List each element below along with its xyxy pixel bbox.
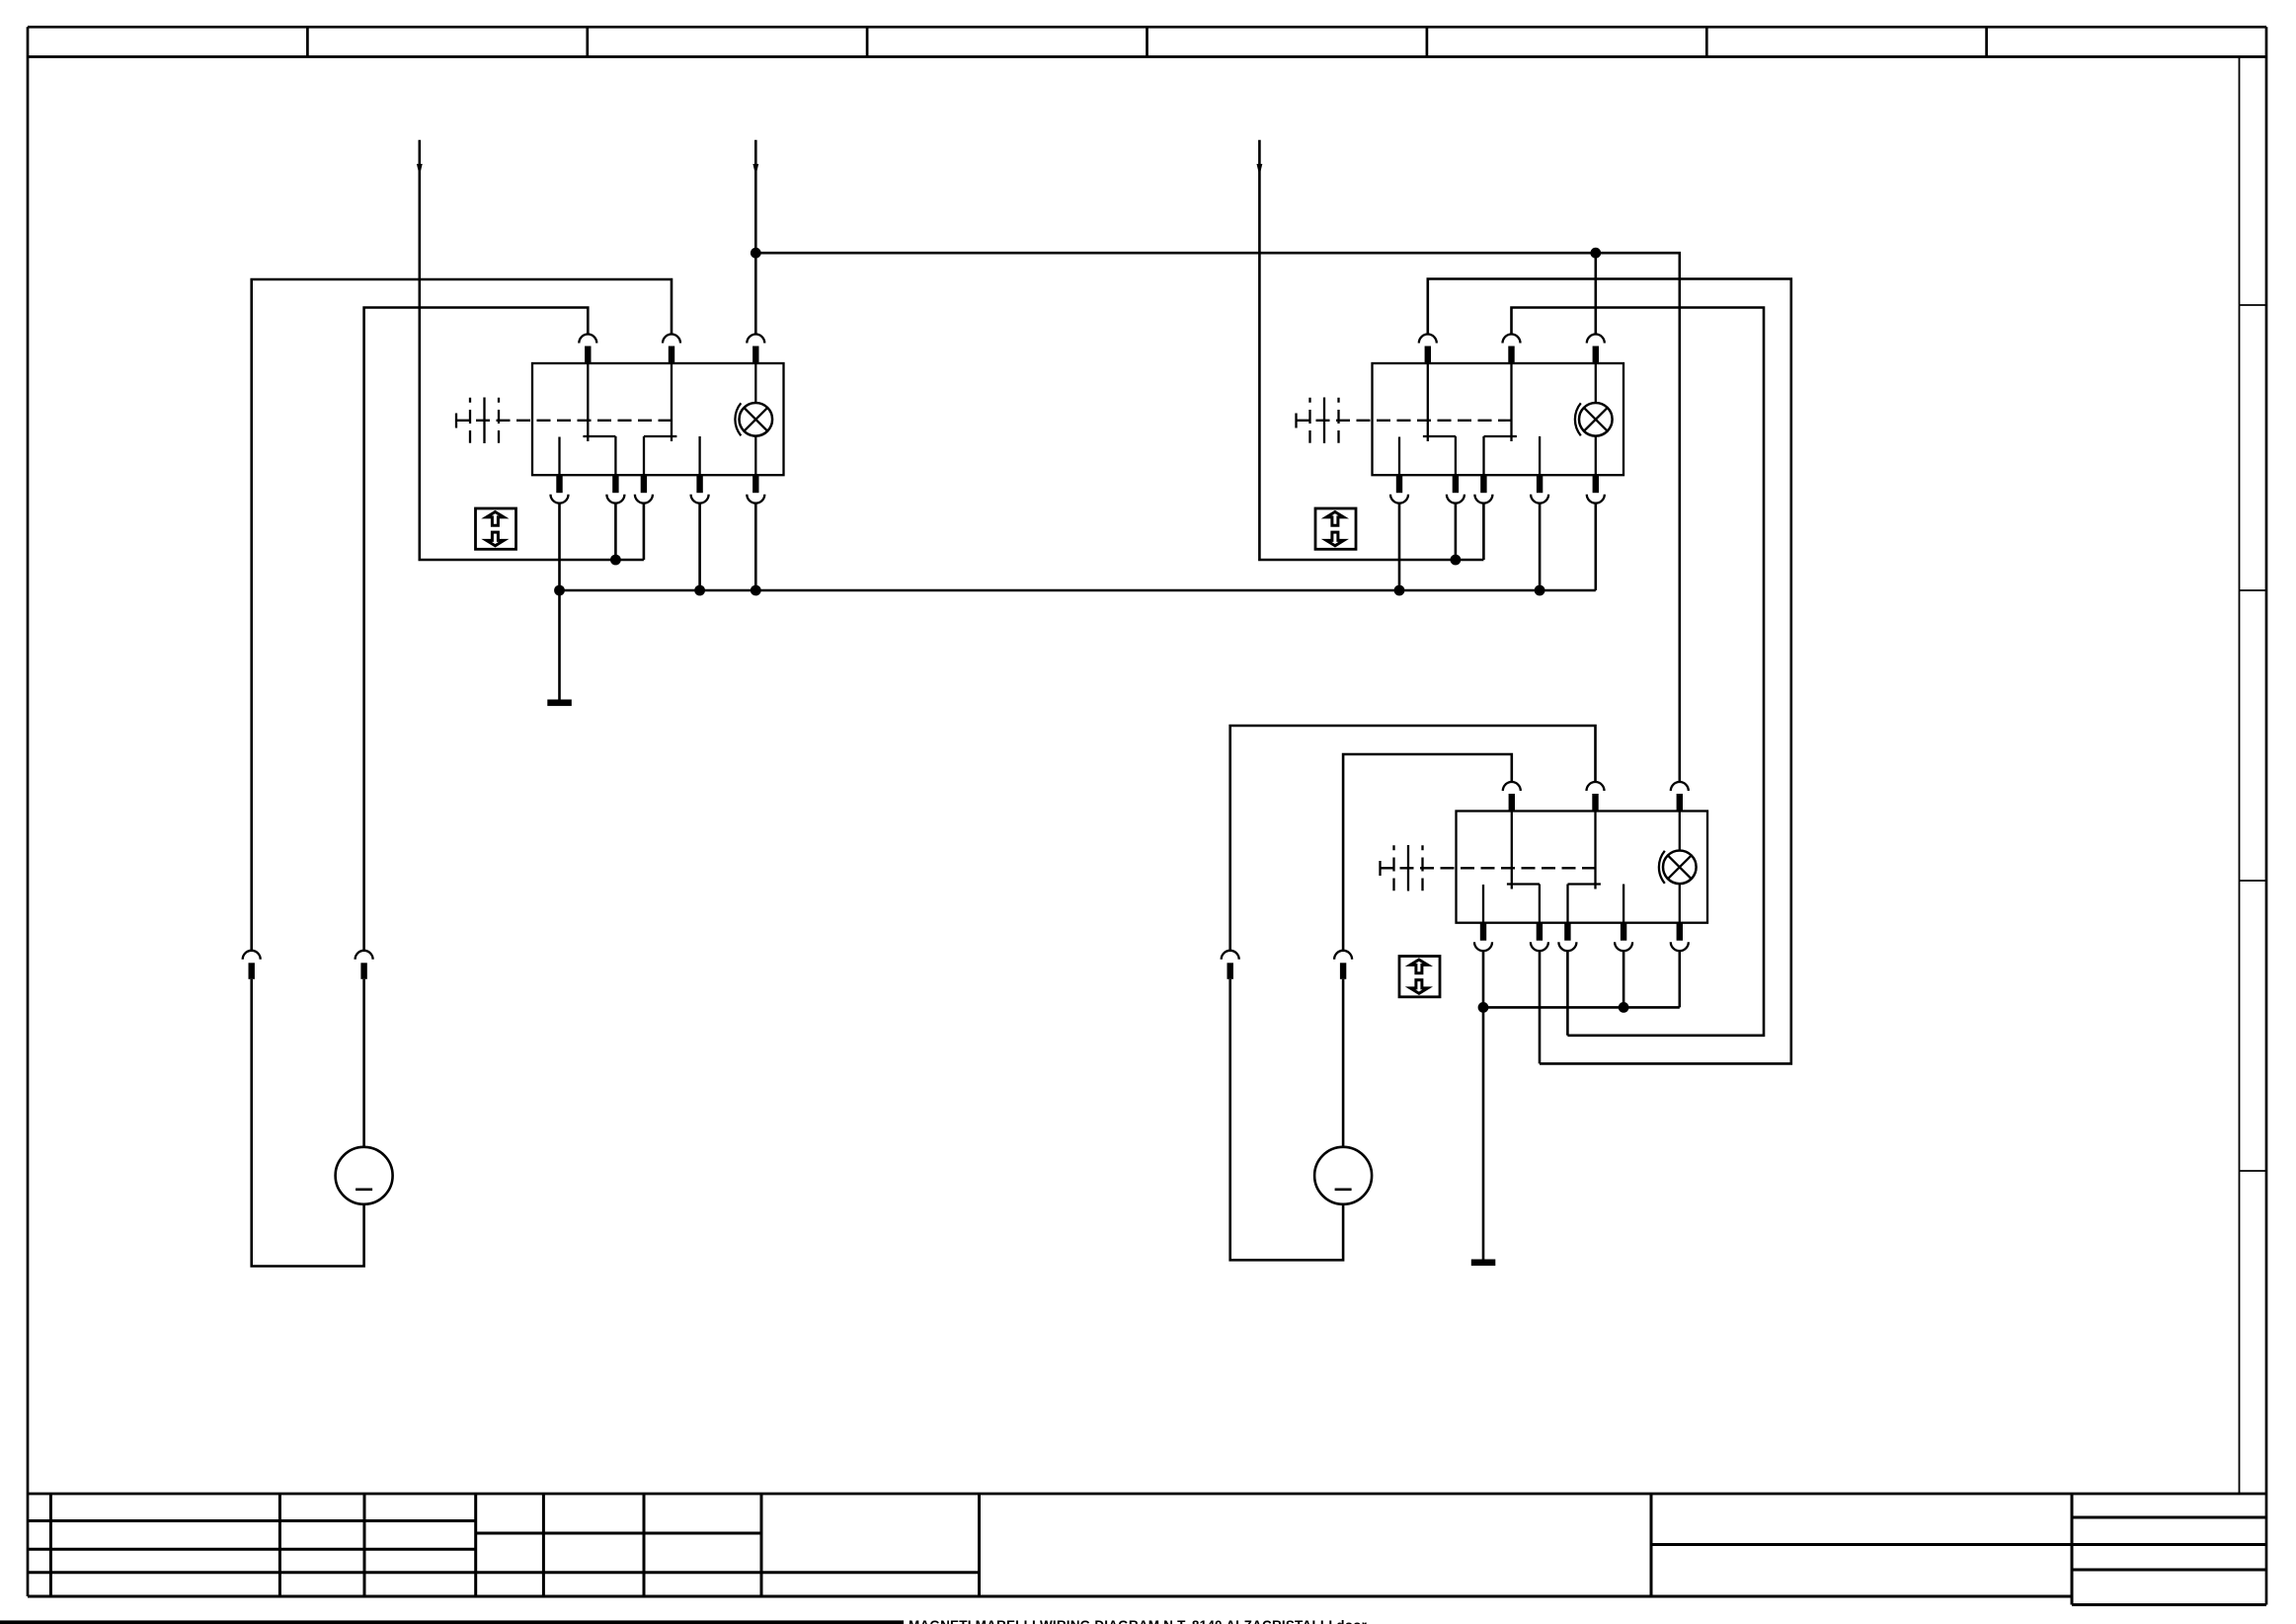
svg-text:MAGNETI MARELLI WIRING DIAGRAM: MAGNETI MARELLI WIRING DIAGRAM N.T. 8140…: [909, 1618, 1368, 1624]
